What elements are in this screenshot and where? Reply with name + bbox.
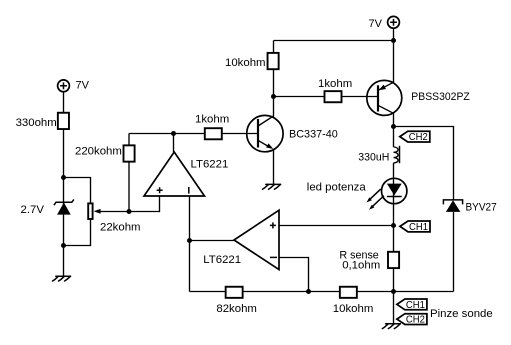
svg-text:220kohm: 220kohm [75,146,122,158]
svg-text:CH2: CH2 [409,131,428,143]
svg-text:2.7V: 2.7V [21,204,45,216]
svg-text:0,1ohm: 0,1ohm [342,260,380,272]
svg-text:10kohm: 10kohm [333,303,374,315]
svg-text:7V: 7V [369,18,383,30]
svg-text:82kohm: 82kohm [216,303,257,315]
svg-text:CH1: CH1 [409,221,428,233]
svg-text:22kohm: 22kohm [100,222,141,234]
svg-text:led potenza: led potenza [307,182,367,194]
svg-text:Pinze sonde: Pinze sonde [430,308,493,320]
svg-text:7V: 7V [76,80,90,92]
svg-text:330uH: 330uH [358,152,389,164]
svg-text:1kohm: 1kohm [318,78,352,90]
svg-text:BC337-40: BC337-40 [289,129,338,141]
svg-text:CH2: CH2 [406,314,425,326]
svg-text:BYV27: BYV27 [466,202,497,214]
svg-text:10kohm: 10kohm [225,57,266,69]
svg-text:PBSS302PZ: PBSS302PZ [411,91,470,103]
svg-text:LT6221: LT6221 [191,159,229,171]
svg-text:CH1: CH1 [406,299,425,311]
svg-text:1kohm: 1kohm [195,114,229,126]
svg-text:LT6221: LT6221 [203,254,241,266]
svg-text:330ohm: 330ohm [16,117,57,129]
